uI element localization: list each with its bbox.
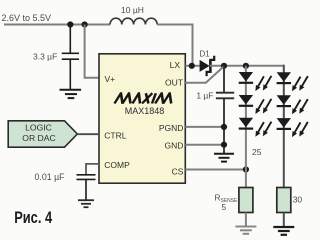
resistor R_SENSE [239,188,253,213]
svg-text:30: 30 [293,195,303,205]
svg-text:25: 25 [252,147,262,157]
capacitor C2 0.01uF on COMP [86,164,99,175]
node: PGND junction [221,124,227,130]
LED D2 (column 1, top) [239,72,272,91]
ground: below R2 [273,227,294,235]
svg-text:PGND: PGND [159,123,184,133]
wire: LED column 2 vertical [283,65,285,188]
label: MAXIM logo [115,93,174,103]
ground: below R_SENSE [235,227,256,234]
wire: CS stub to sense node [185,169,246,171]
ground: below C2 [78,200,94,207]
diode D1 (Schottky) [200,56,215,76]
node: junction LED column 1 top [243,63,249,69]
svg-text:OR DAC: OR DAC [22,133,55,143]
node: junction after D1 [221,63,227,69]
svg-text:D1: D1 [200,50,211,59]
svg-text:OUT: OUT [165,78,183,88]
wire: GND stub [185,144,224,146]
svg-text:3.3 µF: 3.3 µF [33,52,57,62]
svg-text:LX: LX [170,60,181,70]
svg-text:2.6V to 5.5V: 2.6V to 5.5V [2,13,52,23]
node: junction dot on rail (V+ branch) [82,21,88,27]
svg-text:COMP: COMP [104,160,130,170]
wire: logic block to CTRL [77,133,99,135]
op-amp/IC U1 MAX1848 body [99,54,185,183]
svg-text:0.01 µF: 0.01 µF [35,172,66,182]
capacitor C1 3.3uF [62,25,79,90]
wire: R_SENSE to ground [245,213,247,227]
svg-text:V+: V+ [105,74,116,84]
logic block: LOGIC OR DAC [8,121,77,147]
wire: OUT stub with diagonal to D1 cathode node [185,66,224,82]
ground: below C1 [60,90,82,98]
LED D6 (column 2, middle) [277,95,308,114]
capacitor C3 1uF [216,66,234,153]
svg-text:10 µH: 10 µH [121,5,144,15]
node: GND junction [221,142,227,148]
node: CS junction [243,166,249,172]
wire: LX stub [185,65,200,67]
inductor L1 10uH [110,18,157,24]
LED D7 (column 2, bottom) [277,118,308,137]
LED D4 (column 1, bottom) [239,118,272,137]
wire: inductor to LX [157,25,192,66]
LED D5 (column 2, top) [277,72,308,91]
svg-text:5: 5 [222,202,227,212]
ground: below GND/PGND [214,154,234,162]
node: LX junction dot [189,63,195,69]
wire: R2 to ground [283,213,285,227]
wire: diode to LED rail [210,65,284,67]
wire: LED column 1 vertical [245,66,247,188]
resistor R2 30 [277,188,291,213]
svg-text:LOGIC: LOGIC [25,123,52,133]
wire: input rail from supply to inductor [4,24,110,26]
node: junction dot on rail (cap branch) [67,21,73,27]
svg-text:Рис. 4: Рис. 4 [14,210,53,228]
LED D3 (column 1, middle) [239,95,272,114]
wire: PGND stub [185,126,224,128]
svg-text:GND: GND [165,140,184,150]
svg-text:CTRL: CTRL [104,131,126,141]
svg-text:MAX1848: MAX1848 [125,106,165,116]
svg-text:1 µF: 1 µF [196,91,213,101]
wire: rail to V+ pin [85,25,100,78]
svg-text:CS: CS [172,166,184,176]
